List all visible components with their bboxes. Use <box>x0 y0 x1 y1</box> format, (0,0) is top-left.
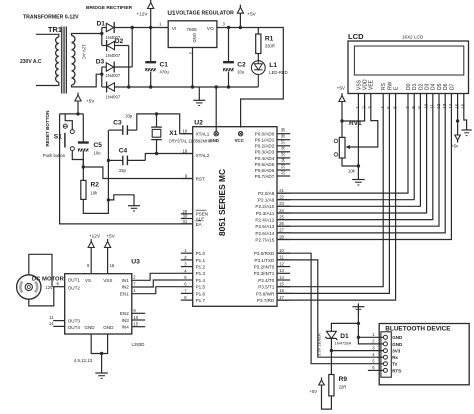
svg-text:P3.0/RXD: P3.0/RXD <box>254 251 275 256</box>
8051 right pin stubs and numbers <box>277 127 290 300</box>
svg-text:D1: D1 <box>340 333 349 340</box>
svg-text:P3.5/T1: P3.5/T1 <box>258 285 275 290</box>
svg-text:3.3V ZENER: 3.3V ZENER <box>317 333 322 356</box>
wire: secondary top tap <box>72 34 102 36</box>
svg-text:P2.0/A8: P2.0/A8 <box>258 191 275 196</box>
svg-text:GND: GND <box>103 325 114 330</box>
wire: R2/C3/C4 ground node <box>107 195 134 206</box>
svg-text:GND: GND <box>209 138 219 143</box>
svg-text:330R: 330R <box>265 44 275 49</box>
svg-text:19: 19 <box>183 129 188 134</box>
svg-text:10k: 10k <box>91 191 99 196</box>
push button S1 <box>43 114 84 167</box>
wire: XTAL2 net <box>145 152 192 161</box>
svg-text:GND: GND <box>392 335 403 340</box>
ground (U3) <box>95 373 108 378</box>
svg-text:D4: D4 <box>431 83 437 90</box>
U3 EN2/IN3/IN4 stubs <box>132 308 145 327</box>
svg-text:DC MOTOR: DC MOTOR <box>32 277 65 283</box>
svg-text:S1: S1 <box>54 133 62 140</box>
svg-text:C2: C2 <box>237 62 246 69</box>
svg-text:IN2: IN2 <box>122 285 130 290</box>
svg-text:37: 37 <box>280 139 285 144</box>
power +12V arrow (U3 VS) <box>87 234 101 274</box>
ground (reset/crystal) <box>128 206 140 211</box>
LCD pin number labels <box>355 103 465 109</box>
diode D3 1N4007 <box>96 59 132 79</box>
svg-text:RTS: RTS <box>392 368 401 373</box>
svg-text:P3.2/INT0: P3.2/INT0 <box>254 265 275 270</box>
svg-text:Push button: Push button <box>43 153 66 158</box>
wire: LCD RS to 8051 P3.5 <box>277 94 383 287</box>
svg-text:21: 21 <box>279 188 284 193</box>
node B: secondary bottom junction <box>100 67 106 87</box>
svg-text:+12V: +12V <box>136 11 148 17</box>
power +5V arrow (top) <box>237 5 256 28</box>
svg-text:U1: U1 <box>167 10 176 17</box>
wire: bluetooth ground net <box>357 307 384 344</box>
wire: secondary bottom tap <box>72 74 102 87</box>
svg-text:10: 10 <box>133 315 138 320</box>
svg-text:TR1: TR1 <box>48 25 62 34</box>
svg-text:XTAL2: XTAL2 <box>196 153 210 158</box>
svg-text:P3.6/WR: P3.6/WR <box>256 291 275 296</box>
svg-text:IN1: IN1 <box>122 278 130 283</box>
svg-text:VEE: VEE <box>369 79 375 90</box>
svg-text:P2.3/A11: P2.3/A11 <box>256 211 275 216</box>
wire: LCD VSS to ground <box>357 94 360 180</box>
label: LCD <box>348 32 364 41</box>
wire: RST net to 8051 pin 9 <box>83 167 192 179</box>
svg-text:TRANSFORMER 0-12V: TRANSFORMER 0-12V <box>23 15 79 21</box>
svg-text:31: 31 <box>183 219 188 224</box>
wire: U3 IN2 to 8051 P1.4 <box>132 280 181 287</box>
wire: 8051 GND drop <box>215 87 217 134</box>
power +5V arrow (LCD contrast) <box>337 86 346 138</box>
svg-text:22: 22 <box>279 195 284 200</box>
svg-text:GND: GND <box>192 33 197 43</box>
svg-text:10: 10 <box>279 248 284 253</box>
svg-text:1N4007: 1N4007 <box>106 53 121 58</box>
wire: main ground rail <box>115 85 259 88</box>
svg-text:P1.7: P1.7 <box>196 298 206 303</box>
power +5V arrow (U3 VSS) <box>105 234 116 274</box>
resistor R2 10k <box>81 167 109 213</box>
svg-text:D7: D7 <box>449 83 455 90</box>
wire: 3V3 net <box>330 349 384 375</box>
svg-text:R2: R2 <box>91 182 100 189</box>
wire: LCD data bus D0-D7 to 8051 P2 <box>277 94 451 240</box>
svg-text:R1: R1 <box>265 36 274 43</box>
svg-text:CRYSTAL 11.0592MHz: CRYSTAL 11.0592MHz <box>169 139 211 144</box>
svg-text:D6: D6 <box>443 83 449 90</box>
wire: U3 GND pins to ground <box>91 334 107 373</box>
svg-text:P1.3: P1.3 <box>196 271 206 276</box>
svg-text:33p: 33p <box>119 168 127 173</box>
svg-text:C5: C5 <box>94 142 103 149</box>
svg-text:P1.4: P1.4 <box>196 278 206 283</box>
svg-text:P2.6/A14: P2.6/A14 <box>255 231 274 236</box>
svg-text:P2.2/A10: P2.2/A10 <box>255 204 274 209</box>
power +5v arrow (LCD backlight, pointing down) <box>451 134 460 149</box>
svg-text:VO: VO <box>207 26 214 32</box>
8051 VCC power pin <box>235 132 245 143</box>
label: 230V A.C <box>20 59 42 65</box>
svg-text:VS: VS <box>85 278 91 283</box>
svg-text:12: 12 <box>436 103 441 109</box>
svg-text:RV1: RV1 <box>349 120 362 127</box>
svg-text:P3.1/TXD: P3.1/TXD <box>254 258 275 263</box>
svg-text:RST: RST <box>196 176 205 181</box>
svg-text:P1.0: P1.0 <box>196 251 206 256</box>
wire: +5V reset node <box>60 112 84 115</box>
svg-text:OUT2: OUT2 <box>68 285 81 290</box>
svg-text:VI: VI <box>172 26 177 32</box>
wire: LCD VEE to pot wiper <box>346 94 378 150</box>
microcontroller U2 8051 box <box>193 120 277 307</box>
wire: bridge positive output <box>131 26 134 67</box>
svg-text:33p: 33p <box>125 114 133 119</box>
wire: LCD E to 8051 P3.7 <box>277 94 396 301</box>
wire: EA tie-high (+5V to pin 31) <box>60 114 193 224</box>
wire: 8051 P3.0 RXD to bluetooth Tx <box>277 253 383 364</box>
svg-text:38: 38 <box>280 133 285 138</box>
svg-text:P2.7/A15: P2.7/A15 <box>255 237 274 242</box>
svg-text:XTAL1: XTAL1 <box>196 132 210 137</box>
svg-text:U3: U3 <box>131 259 140 266</box>
svg-text:VCC: VCC <box>235 138 245 143</box>
capacitor C4 33p <box>108 147 145 173</box>
svg-text:470u: 470u <box>160 70 170 75</box>
svg-text:P2.1/A9: P2.1/A9 <box>258 198 275 203</box>
wire: LCD pin 15 backlight anode <box>456 94 459 135</box>
svg-text:C4: C4 <box>119 147 128 154</box>
svg-text:P0.7/AD7: P0.7/AD7 <box>255 174 275 179</box>
ground (bluetooth) <box>352 303 364 312</box>
U3 pin names <box>68 278 130 330</box>
svg-text:LCD: LCD <box>348 32 364 41</box>
8051 GND power pin <box>209 132 219 143</box>
svg-text:15: 15 <box>454 103 459 109</box>
svg-text:13: 13 <box>442 103 447 109</box>
svg-text:VOLTAGE REGULATOR: VOLTAGE REGULATOR <box>176 11 234 17</box>
svg-text:10: 10 <box>423 103 428 109</box>
svg-text:IN3: IN3 <box>122 318 130 323</box>
svg-text:23: 23 <box>279 201 284 206</box>
wire: XTAL1 net <box>137 112 193 133</box>
svg-text:D5: D5 <box>437 83 443 90</box>
svg-text:10k: 10k <box>348 169 356 174</box>
capacitor C3 33p <box>109 114 137 135</box>
svg-text:16: 16 <box>461 103 466 109</box>
svg-text:U2: U2 <box>194 120 203 127</box>
diode D4 1N4007 <box>106 82 121 100</box>
svg-text:16X2 LCD: 16X2 LCD <box>402 35 424 40</box>
svg-text:1N4007: 1N4007 <box>106 73 121 78</box>
potentiometer RV1 10k <box>334 120 362 173</box>
wire: +12V rail <box>132 26 168 29</box>
svg-text:Tx: Tx <box>392 362 398 367</box>
transformer TR1 <box>36 25 86 93</box>
8051 left pin names <box>196 132 210 303</box>
svg-text:GND: GND <box>84 325 95 330</box>
svg-text:P1.5: P1.5 <box>196 285 206 290</box>
label: 4,5,12,13 <box>74 358 93 363</box>
svg-text:14: 14 <box>448 103 453 109</box>
zener diode D1 1N4728A 3.3V <box>317 323 359 356</box>
wire: load caps to ground node <box>107 130 110 200</box>
bluetooth device box <box>379 324 469 385</box>
svg-text:D3: D3 <box>96 59 105 66</box>
resistor R9 22R <box>322 375 348 410</box>
svg-text:24: 24 <box>279 208 284 213</box>
diode D2 1N4007 <box>106 38 129 58</box>
svg-text:28: 28 <box>279 234 284 239</box>
svg-text:LED-RED: LED-RED <box>269 70 287 75</box>
svg-text:OUT1: OUT1 <box>68 278 81 283</box>
diode D1 1N4007 <box>97 21 133 40</box>
svg-text:P0.6/AD6: P0.6/AD6 <box>255 168 275 173</box>
svg-text:P0.5/AD5: P0.5/AD5 <box>255 162 275 167</box>
led L1 LED-RED <box>251 54 287 88</box>
svg-text:10u: 10u <box>237 70 245 75</box>
svg-text:D0: D0 <box>406 83 412 90</box>
svg-text:P0.0/AD0: P0.0/AD0 <box>255 132 275 137</box>
svg-text:OUT3: OUT3 <box>68 319 81 324</box>
wire: +5V rail from VO <box>217 26 283 128</box>
ground (main rail) <box>193 87 205 106</box>
svg-text:18: 18 <box>183 149 188 154</box>
motor driver U3 L293D box <box>65 259 140 335</box>
svg-text:P2.5/A13: P2.5/A13 <box>255 224 274 229</box>
pin number 1 (regulator VI) <box>159 21 162 26</box>
capacitor C5 10u <box>78 114 102 169</box>
svg-text:4,5,12,13: 4,5,12,13 <box>74 358 93 363</box>
svg-text:14: 14 <box>279 275 284 280</box>
svg-text:33: 33 <box>280 163 285 168</box>
svg-text:14: 14 <box>49 321 54 326</box>
svg-text:13: 13 <box>279 268 284 273</box>
8051 right pin names P2 <box>255 191 274 242</box>
svg-text:P3.7/RD: P3.7/RD <box>257 298 275 303</box>
8051 right pin names P3 <box>254 251 275 303</box>
svg-text:P3.3/INT1: P3.3/INT1 <box>254 271 275 276</box>
svg-text:VSS: VSS <box>103 278 112 283</box>
svg-text:1N4728A: 1N4728A <box>335 340 352 345</box>
svg-text:C1: C1 <box>160 62 169 69</box>
dc motor <box>17 275 65 299</box>
svg-text:11: 11 <box>279 255 284 260</box>
svg-text:230V A.C: 230V A.C <box>20 59 42 65</box>
svg-text:15: 15 <box>133 322 138 327</box>
crystal X1 <box>151 114 211 154</box>
bluetooth connector pins <box>368 332 403 373</box>
svg-text:15: 15 <box>279 282 284 287</box>
capacitor C2 10u <box>223 28 246 89</box>
label: RESET BOTTON <box>45 110 50 147</box>
voltage regulator U1 7805 <box>167 10 234 48</box>
svg-text:+12V: +12V <box>89 234 101 240</box>
label: TRANSFORMER 0-12V <box>23 15 79 21</box>
svg-text:BLUETOOTH DEVICE: BLUETOOTH DEVICE <box>385 326 451 333</box>
label: L293D <box>132 342 145 347</box>
wire: U3 EN1 to 8051 P1.5 <box>132 287 181 294</box>
svg-text:8051 SERIES MC: 8051 SERIES MC <box>217 169 227 236</box>
svg-text:P0.1/AD1: P0.1/AD1 <box>255 138 275 143</box>
svg-text:P1.1: P1.1 <box>196 258 206 263</box>
svg-text:+5V: +5V <box>309 389 317 394</box>
svg-text:D1: D1 <box>412 83 418 90</box>
LCD pin name labels <box>356 79 455 90</box>
svg-text:D1: D1 <box>97 21 106 28</box>
wire: U3 IN1 to 8051 P1.3 <box>132 273 181 280</box>
svg-text:17: 17 <box>279 295 284 300</box>
wire: LCD RW to 8051 P3.6 <box>277 94 389 294</box>
wire: LCD VDD to +5V <box>342 94 365 122</box>
svg-text:IN4: IN4 <box>122 325 130 330</box>
svg-text:R9: R9 <box>339 376 348 383</box>
svg-text:C3: C3 <box>113 119 122 126</box>
svg-text:L1: L1 <box>269 62 277 69</box>
svg-text:39: 39 <box>280 127 285 132</box>
ground (LCD backlight) <box>462 130 472 136</box>
wire: LCD pin 16 to ground <box>464 94 467 130</box>
svg-text:D2: D2 <box>115 38 124 45</box>
svg-text:Rx: Rx <box>392 355 398 360</box>
svg-text:VDD: VDD <box>363 79 369 90</box>
svg-text:3V3: 3V3 <box>392 349 401 354</box>
svg-text:P1.2: P1.2 <box>196 265 206 270</box>
svg-text:22R: 22R <box>339 385 347 390</box>
svg-text:16: 16 <box>110 263 115 268</box>
svg-text:1N4007: 1N4007 <box>106 95 121 100</box>
svg-text:+5V: +5V <box>106 234 115 240</box>
svg-text:BRIDGE RECTIFIER: BRIDGE RECTIFIER <box>86 5 133 11</box>
svg-text:11: 11 <box>49 315 54 320</box>
svg-text:P3.4/T0: P3.4/T0 <box>258 278 275 283</box>
ground (LCD VSS) <box>352 180 365 185</box>
U3 OUT2/OUT3/OUT4 stubs <box>49 281 65 326</box>
svg-text:35: 35 <box>280 151 285 156</box>
svg-text:26: 26 <box>279 221 284 226</box>
svg-text:10u: 10u <box>94 151 102 156</box>
svg-text:16: 16 <box>279 288 284 293</box>
resistor R1 330R <box>256 28 275 54</box>
svg-text:12V AC: 12V AC <box>81 44 86 60</box>
svg-text:11: 11 <box>430 104 435 109</box>
wire: motor bottom loop <box>29 287 54 306</box>
label: 16X2 LCD <box>402 35 424 40</box>
svg-text:OUT4: OUT4 <box>68 325 81 330</box>
svg-text:34: 34 <box>280 157 285 162</box>
svg-text:32: 32 <box>280 169 285 174</box>
svg-text:P0.2/AD2: P0.2/AD2 <box>255 144 275 149</box>
svg-text:25: 25 <box>279 214 284 219</box>
svg-text:P1.6: P1.6 <box>196 291 206 296</box>
svg-text:D3: D3 <box>425 83 431 90</box>
svg-text:+5v: +5v <box>451 144 459 149</box>
svg-text:EN2: EN2 <box>120 311 129 316</box>
8051 right pin names P0 <box>255 132 275 179</box>
svg-text:P0.4/AD4: P0.4/AD4 <box>255 156 275 161</box>
node A: secondary top junction <box>100 28 106 46</box>
svg-text:RW: RW <box>387 81 393 90</box>
svg-text:EA: EA <box>196 222 203 227</box>
svg-text:30: 30 <box>183 214 188 219</box>
svg-text:VSS: VSS <box>356 79 362 90</box>
svg-text:27: 27 <box>279 228 284 233</box>
power +5V arrow (reset) <box>75 93 95 114</box>
svg-text:D2: D2 <box>418 83 424 90</box>
capacitor C1 470u <box>145 28 169 89</box>
svg-text:RESET BOTTON: RESET BOTTON <box>45 110 50 147</box>
svg-text:12: 12 <box>279 261 284 266</box>
svg-text:36: 36 <box>280 145 285 150</box>
svg-text:7805: 7805 <box>187 27 198 32</box>
svg-text:+5V: +5V <box>337 86 346 91</box>
svg-text:EN1: EN1 <box>120 291 129 296</box>
wire: regulator GND pin 2 to ground rail <box>189 48 195 89</box>
svg-text:P0.3/AD3: P0.3/AD3 <box>255 150 275 155</box>
svg-text:GND: GND <box>392 342 403 347</box>
wire: bridge negative to ground rail <box>127 46 130 89</box>
svg-text:X1: X1 <box>169 130 177 137</box>
LCD module box <box>348 41 469 94</box>
8051 left pin stubs and numbers <box>181 129 193 300</box>
svg-text:L293D: L293D <box>132 342 145 347</box>
power +12V arrow <box>136 0 154 28</box>
power +5V arrow (R9) <box>309 378 324 395</box>
wire: 8051 P3.1 TXD to bluetooth Rx <box>277 260 383 357</box>
wire: motor top to U3 OUT2 stub <box>29 254 52 286</box>
svg-text:P2.4/A12: P2.4/A12 <box>255 218 274 223</box>
svg-text:+5V: +5V <box>247 12 256 18</box>
svg-text:+5V: +5V <box>86 99 95 105</box>
label: BRIDGE RECTIFIER <box>86 5 133 11</box>
svg-text:RS: RS <box>381 82 387 90</box>
